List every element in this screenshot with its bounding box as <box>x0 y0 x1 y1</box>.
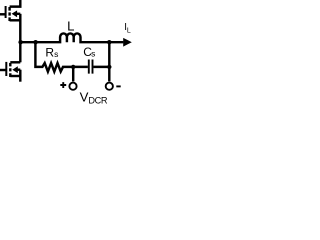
svg-text:L: L <box>67 18 74 33</box>
